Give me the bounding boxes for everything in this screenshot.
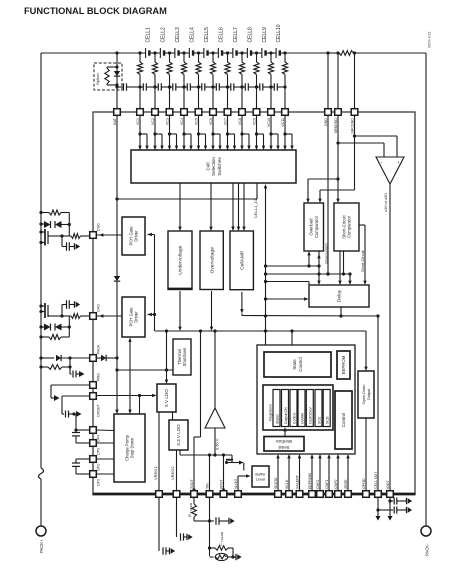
svg-text:Charge Pump: Charge Pump <box>124 434 129 461</box>
capacitor on IOUT <box>387 497 412 521</box>
svg-text:SRCGND: SRCGND <box>351 118 355 134</box>
wire bus317 to CELL OUT pin <box>377 316 379 491</box>
svg-text:x10 or x50: x10 or x50 <box>383 193 388 212</box>
capacitor C6 between VC6 and VC7 <box>211 83 229 90</box>
svg-text:Output CH: Output CH <box>284 407 288 424</box>
wire BAT internal vertical <box>115 115 118 414</box>
wire LDO bridge <box>172 412 174 420</box>
resistor RVC9 <box>254 53 259 109</box>
wire y455 <box>180 450 244 471</box>
wire VC10 into cell selector <box>269 115 279 150</box>
svg-text:State: State <box>292 359 297 370</box>
pin PMS <box>90 373 101 389</box>
wire GD2 to charge pump <box>128 338 131 415</box>
label Overcurrent <box>324 243 329 264</box>
svg-text:VREG2: VREG2 <box>170 466 175 480</box>
capacitor C5 between VC5 and VC6 <box>197 83 215 90</box>
svg-text:Overvoltage: Overvoltage <box>209 247 215 274</box>
svg-text:Driver: Driver <box>134 230 139 242</box>
label CELL10 <box>276 24 282 42</box>
svg-text:FUNCTIONAL BLOCK DIAGRAM: FUNCTIONAL BLOCK DIAGRAM <box>24 6 167 16</box>
pin VC2 <box>151 109 158 125</box>
pin DSG <box>90 223 101 238</box>
wire selector to Undervoltage <box>178 183 181 231</box>
svg-text:VC10: VC10 <box>267 118 271 127</box>
wire shortcircuit to delay <box>338 251 341 285</box>
svg-text:Overcurrent: Overcurrent <box>324 243 329 264</box>
wire DSG pin to driver <box>96 233 122 236</box>
transistor Q1 DSG FET <box>39 229 48 246</box>
wire open-drain to GPOD <box>365 418 367 491</box>
svg-text:Comparator: Comparator <box>314 215 319 238</box>
pin CELL OUT <box>374 471 381 498</box>
capacitor on CELL OUT <box>375 497 412 521</box>
battery cell CELL4 <box>189 48 193 58</box>
IC boundary box <box>93 112 415 494</box>
block PCH Gate Driver 1 <box>122 217 145 255</box>
battery cell CELL1 <box>146 48 150 58</box>
wire VLOG <box>238 474 251 491</box>
wire VREG2 <box>176 450 178 491</box>
capacitor CBAT <box>115 83 140 90</box>
pin BAT <box>113 109 120 125</box>
battery cell CELL7 <box>233 48 237 58</box>
battery cell CELL3 <box>175 48 179 58</box>
label CELL1 <box>146 27 152 43</box>
wire VC6 into cell selector <box>211 115 221 150</box>
block Delay <box>309 285 369 307</box>
capacitor C7 between VC7 and VC8 <box>226 83 244 90</box>
svg-text:VC9: VC9 <box>253 118 257 125</box>
resistor RVC2 <box>152 53 157 109</box>
pin XRST <box>220 479 227 498</box>
resistor RVC7 <box>225 53 230 109</box>
block Thermal Shutdown <box>173 339 191 375</box>
svg-text:+: + <box>397 160 400 165</box>
resistor RVC1 <box>137 53 142 109</box>
wire VC3 into cell selector <box>168 115 178 150</box>
capacitor C8 between VC8 and VC9 <box>240 83 258 90</box>
wire delay output <box>339 307 342 318</box>
svg-text:VC3: VC3 <box>166 118 170 125</box>
pin SRBGND <box>334 109 341 134</box>
wire SCLK to logic <box>287 454 290 491</box>
block Cell Selection Switches <box>131 150 296 183</box>
svg-text:PACK: PACK <box>97 344 101 354</box>
op-amp current sense x10 or x50 <box>376 157 404 184</box>
svg-text:PACK+: PACK+ <box>39 539 44 553</box>
svg-text:CELL1: CELL1 <box>146 27 152 43</box>
wire SRC to overload comp <box>318 190 354 203</box>
pin GND <box>324 109 331 126</box>
diode D6 to PACK <box>39 355 90 361</box>
label CELL5 <box>204 27 210 43</box>
pin VLOG <box>234 479 241 497</box>
wire right rail PACK- <box>425 53 427 526</box>
svg-text:Level: Level <box>256 476 265 481</box>
svg-text:THERM: THERM <box>189 502 193 513</box>
svg-text:SCC: SCC <box>317 416 321 424</box>
wire serial to registers <box>283 427 286 436</box>
pin CP2 <box>90 456 101 471</box>
capacitor C2 between VC2 and VC3 <box>153 83 171 90</box>
svg-text:SRBGND: SRBGND <box>334 118 338 134</box>
pin IOUT <box>386 480 393 498</box>
capacitor C5 stub <box>70 367 85 378</box>
label x10 or x50 <box>383 193 388 212</box>
svg-text:CELL7: CELL7 <box>233 27 239 43</box>
wire CP2 <box>96 458 114 460</box>
op-amp 0.50V buffer <box>205 408 225 428</box>
pin VC5 <box>195 109 202 125</box>
resistor R2 parallel <box>39 358 71 369</box>
wire GND drop <box>327 53 329 109</box>
capacitor CTHERM <box>210 517 235 524</box>
svg-text:CP2: CP2 <box>97 464 101 471</box>
block Control <box>335 391 352 449</box>
svg-text:Status: Status <box>275 414 279 424</box>
svg-text:Open-Drain: Open-Drain <box>362 385 366 405</box>
resistor RVC5 <box>196 53 201 109</box>
battery cell CELL8 <box>247 48 251 58</box>
register Control <box>290 390 297 427</box>
zener pair D2 D3 <box>39 221 71 228</box>
battery cell CELL2 <box>160 48 164 58</box>
wire Q2 gate <box>48 314 90 319</box>
svg-text:CELL8: CELL8 <box>247 27 253 43</box>
svg-text:0.50 V: 0.50 V <box>214 438 219 450</box>
option dashed box <box>94 63 122 90</box>
label CELL7 <box>233 27 239 43</box>
svg-text:VC11: VC11 <box>281 118 285 127</box>
svg-text:VLOG: VLOG <box>234 479 238 489</box>
svg-text:DSG: DSG <box>97 223 101 231</box>
capacitor C9 between VC9 and VC10 <box>255 83 273 90</box>
pin VC9 <box>253 109 260 125</box>
wire SRC to amp minus <box>355 136 398 157</box>
wire top battery rail <box>41 52 426 54</box>
wire XALERT to logic <box>298 454 301 491</box>
wire overload to delay <box>317 251 320 285</box>
register Status <box>273 390 280 427</box>
svg-text:Serial: Serial <box>278 445 289 450</box>
wire selector to Overvoltage <box>209 183 212 231</box>
wire VC2 into cell selector <box>153 115 163 150</box>
pin VC1 <box>136 109 143 125</box>
svg-text:Output: Output <box>367 388 371 400</box>
wire bus2 <box>266 251 352 285</box>
wire amp output to IOUT <box>389 184 391 491</box>
block Serial Interface <box>264 437 304 452</box>
svg-text:VC2: VC2 <box>151 118 155 125</box>
pin VC6 <box>209 109 216 125</box>
wire to TOUT <box>192 331 200 493</box>
svg-text:VC4: VC4 <box>180 118 184 125</box>
svg-text:CELL OUT: CELL OUT <box>374 471 378 489</box>
thermistor network <box>210 546 242 561</box>
wire to ref amp <box>214 331 216 408</box>
IC bottom edge thick <box>93 493 416 496</box>
pin CNF2 <box>316 480 323 498</box>
wire SRB to overload comp <box>306 179 338 203</box>
wire left rail <box>40 53 42 468</box>
resistor RG2 <box>39 316 69 340</box>
pin VC10 <box>267 109 274 127</box>
svg-text:CELL5: CELL5 <box>204 27 210 43</box>
wire VC9 into cell selector <box>255 115 265 150</box>
svg-text:CP1: CP1 <box>97 479 101 486</box>
block Buffer Level <box>252 466 269 487</box>
svg-text:CELL4: CELL4 <box>189 27 195 43</box>
wire EEPROM to logic <box>310 454 313 491</box>
wire bus331 to open-drain <box>364 331 367 371</box>
svg-text:Short-Circuit: Short-Circuit <box>341 215 346 239</box>
svg-text:TOUT: TOUT <box>190 478 194 489</box>
svg-text:Selection: Selection <box>211 157 216 176</box>
block Undervoltage <box>168 231 192 290</box>
svg-text:THERM: THERM <box>220 531 224 542</box>
pin CHG <box>90 304 101 319</box>
label 0.50V <box>214 438 219 450</box>
pin TIN <box>206 483 213 497</box>
wire bus4 to delay <box>266 297 309 300</box>
block Charge Pump Step Down <box>114 414 145 482</box>
resistor RD1 <box>39 210 69 236</box>
svg-text:GND: GND <box>324 118 328 126</box>
svg-text:Interface: Interface <box>275 439 292 444</box>
wire CP1 <box>96 473 114 475</box>
label CELL6 <box>218 27 224 43</box>
svg-text:GPOD: GPOD <box>362 478 366 489</box>
pin VC8 <box>238 109 245 125</box>
svg-text:VC5: VC5 <box>195 118 199 125</box>
wire ZEDE to logic <box>346 454 349 491</box>
svg-text:3.3 V LDO: 3.3 V LDO <box>176 424 181 446</box>
wire VC1 into cell selector <box>138 115 148 150</box>
register SCC <box>315 390 322 427</box>
wire CHG pin to driver <box>96 314 122 317</box>
label VREG1 <box>153 466 158 480</box>
wire VC7 into cell selector <box>226 115 236 150</box>
svg-text:OLDOOLV: OLDOOLV <box>309 407 313 424</box>
pin XALERT <box>296 474 303 497</box>
option zener diode D1 <box>114 53 120 87</box>
sense resistor on rail <box>336 51 356 56</box>
resistor RTHERM <box>192 497 211 523</box>
svg-text:VC8: VC8 <box>238 118 242 125</box>
block 3.3V LDO <box>169 420 188 450</box>
resistor RVC10 <box>268 53 273 109</box>
wire Q1 gate <box>48 234 90 239</box>
wire VC5 into cell selector <box>197 115 207 150</box>
svg-text:Thermal: Thermal <box>177 349 182 364</box>
capacitor C4 between VC4 and VC5 <box>182 83 200 90</box>
block PCH Gate Driver 2 <box>122 297 145 337</box>
svg-text:VC1: VC1 <box>136 118 140 125</box>
svg-text:PCH Gate: PCH Gate <box>128 307 133 327</box>
svg-text:C: C <box>218 543 223 546</box>
block 5V LDO <box>157 384 176 412</box>
label CELL2 <box>160 27 166 43</box>
svg-text:TIN: TIN <box>206 483 210 489</box>
svg-text:Driver: Driver <box>134 311 139 323</box>
wire CPOUT external <box>62 396 90 418</box>
svg-text:CELL1_10: CELL1_10 <box>253 198 258 218</box>
wire ref out <box>213 428 216 457</box>
svg-text:BAT: BAT <box>113 117 117 125</box>
svg-text:CPOUT: CPOUT <box>97 404 101 417</box>
wire CP4 <box>96 429 114 432</box>
resistor RVC11 <box>282 53 287 109</box>
pin VC4 <box>180 109 187 125</box>
pin ZEDE <box>344 479 351 497</box>
wire VC8 into cell selector <box>240 115 250 150</box>
svg-text:VC7: VC7 <box>224 118 228 125</box>
svg-text:Control: Control <box>341 413 346 428</box>
svg-text:SCD: SCD <box>326 416 330 424</box>
label VREG2 <box>170 466 175 480</box>
wire bus317 <box>243 314 380 317</box>
capacitor CQ2 <box>62 300 80 316</box>
capacitor on VREG1 <box>159 497 175 555</box>
wire bus3 <box>266 282 310 286</box>
digital outer box <box>257 345 355 454</box>
wire BAT to thermal <box>117 329 173 371</box>
block Open-Drain Output <box>358 371 374 418</box>
label CELL8 <box>247 27 253 43</box>
svg-text:CELL10: CELL10 <box>276 24 282 42</box>
title text <box>24 6 167 16</box>
svg-text:VREG1: VREG1 <box>153 466 158 480</box>
svg-text:Cell: Cell <box>205 163 210 171</box>
capacitor C3 between VC3 and VC4 <box>168 83 186 90</box>
wire SRC drop <box>354 53 356 109</box>
wire CNF1 to logic <box>327 454 330 491</box>
wire VREG1 <box>158 412 160 491</box>
svg-text:CHG: CHG <box>97 304 101 312</box>
svg-text:CELL2: CELL2 <box>160 27 166 43</box>
capacitor C1 between VC1 and VC2 <box>138 83 156 90</box>
wire SRB drop <box>337 53 339 109</box>
block Overload Comparator <box>304 203 324 251</box>
wire SRB internal <box>336 115 339 203</box>
capacitor CQ1 <box>62 236 80 251</box>
svg-text:EEPROM: EEPROM <box>341 355 346 374</box>
pin TOUT <box>190 478 197 497</box>
wire selector to CellAMP <box>231 183 245 231</box>
zener pair D4 D5 <box>39 324 71 331</box>
block Short-Circuit Comparator <box>334 203 359 251</box>
wire bus331 <box>155 329 366 332</box>
block CellAMP <box>230 231 253 290</box>
svg-text:Delay: Delay <box>337 289 343 302</box>
svg-text:Comparator: Comparator <box>347 215 352 238</box>
wire CELL1_10 vertical <box>264 184 267 345</box>
wire TIN <box>209 455 211 491</box>
wire SRC internal <box>353 115 356 190</box>
wire UV output <box>178 291 181 331</box>
capacitor C6 CP4-CP3 <box>72 414 90 443</box>
svg-text:0954-013: 0954-013 <box>427 32 432 48</box>
svg-text:Overload: Overload <box>309 218 314 236</box>
svg-text:CP3: CP3 <box>97 448 101 455</box>
block EEPROM <box>337 351 350 379</box>
resistor RVC6 <box>210 53 215 109</box>
battery cell CELL6 <box>218 48 222 58</box>
label Short-Circuit <box>360 249 365 272</box>
svg-text:CELL3: CELL3 <box>175 27 181 43</box>
svg-text:PMS: PMS <box>97 373 101 381</box>
resistor RVC4 <box>181 53 186 109</box>
resistor RVC8 <box>239 53 244 109</box>
pin VC3 <box>166 109 173 125</box>
svg-text:Control: Control <box>292 412 296 424</box>
label Option <box>95 73 100 85</box>
label CELL9 <box>262 27 268 43</box>
wire OV output <box>210 291 213 331</box>
terminal PACK- <box>421 526 431 536</box>
register OLDOOLV <box>306 390 313 427</box>
wire CellAMP output <box>240 292 243 316</box>
svg-text:PACK-: PACK- <box>425 543 430 556</box>
pin CNF0 <box>334 480 341 498</box>
pin CPOUT <box>90 393 101 417</box>
svg-text:CellAMP: CellAMP <box>239 251 245 270</box>
wire BAT pin drop <box>116 87 118 109</box>
wire CNF2 to logic <box>318 454 321 491</box>
battery cell CELL9 <box>262 48 266 58</box>
label CTHERM <box>218 531 224 546</box>
wire VC4 into cell selector <box>182 115 192 150</box>
battery cell CELL5 <box>204 48 208 58</box>
junction dots on rail <box>115 51 329 54</box>
wire PMS <box>51 385 90 401</box>
register Output CH <box>282 390 289 427</box>
label CELL1_10 <box>253 198 258 218</box>
pin CP1 <box>90 471 101 486</box>
svg-text:Control: Control <box>298 357 303 372</box>
svg-text:CP4: CP4 <box>97 435 101 442</box>
label RTHERM <box>187 502 193 517</box>
svg-text:Undervoltage: Undervoltage <box>178 245 184 274</box>
wire CPOUT internal <box>96 394 157 414</box>
svg-text:UVWM: UVWM <box>300 413 304 424</box>
wire BAT to cell selector <box>117 183 257 199</box>
svg-text:PCH Gate: PCH Gate <box>128 226 133 246</box>
svg-text:CELL9: CELL9 <box>262 27 268 43</box>
resistor RVC3 <box>167 53 172 109</box>
registers outer box <box>263 385 333 430</box>
wire bus1 <box>266 251 321 268</box>
block State Control <box>264 352 331 377</box>
option resistor <box>105 65 119 86</box>
wire CP3 <box>96 442 114 444</box>
svg-text:R: R <box>187 514 192 517</box>
battery cell CELL10 <box>276 48 280 58</box>
pin PACK <box>90 344 101 361</box>
pin SCLK <box>285 479 292 497</box>
label CELL3 <box>175 27 181 43</box>
wire XRST <box>222 455 225 493</box>
label CELL4 <box>189 27 195 43</box>
pin VC7 <box>224 109 231 125</box>
terminal PACK+ <box>36 526 46 536</box>
wire to PACK+ <box>40 479 42 526</box>
svg-text:Switches: Switches <box>217 157 222 176</box>
wire shortcircuit right to delay <box>359 225 367 285</box>
wire to 5V LDO <box>165 370 168 384</box>
pin SDATA <box>274 477 281 497</box>
